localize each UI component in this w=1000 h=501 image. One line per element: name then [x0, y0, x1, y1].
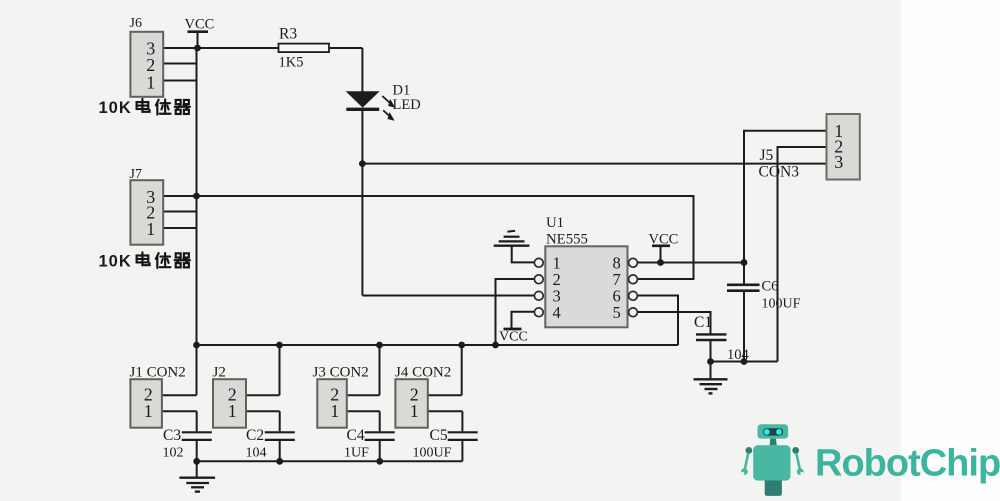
svg-text:C6: C6 [762, 279, 779, 295]
svg-text:1K5: 1K5 [279, 55, 304, 71]
svg-text:1: 1 [146, 72, 155, 92]
svg-text:C3: C3 [163, 427, 181, 444]
svg-text:J1 CON2: J1 CON2 [130, 365, 186, 381]
svg-text:VCC: VCC [185, 17, 215, 33]
svg-text:J3 CON2: J3 CON2 [313, 365, 369, 381]
svg-text:102: 102 [163, 446, 184, 461]
svg-text:C5: C5 [430, 427, 448, 444]
svg-text:104: 104 [727, 347, 750, 363]
svg-text:J6: J6 [130, 16, 142, 31]
svg-text:10K: 10K [99, 253, 132, 271]
svg-text:1UF: 1UF [344, 446, 369, 461]
svg-text:VCC: VCC [649, 232, 679, 248]
svg-text:NE555: NE555 [546, 232, 588, 248]
svg-text:5: 5 [613, 303, 621, 322]
svg-text:CON3: CON3 [759, 164, 800, 181]
svg-text:100UF: 100UF [762, 297, 801, 312]
svg-text:C1: C1 [694, 314, 712, 331]
svg-text:C4: C4 [347, 427, 365, 444]
svg-text:100UF: 100UF [413, 446, 452, 461]
svg-text:1: 1 [410, 401, 419, 421]
svg-text:4: 4 [553, 303, 561, 322]
svg-text:R3: R3 [279, 26, 297, 43]
svg-text:3: 3 [834, 152, 843, 172]
svg-text:1: 1 [144, 401, 153, 421]
svg-text:10K: 10K [99, 99, 132, 117]
svg-text:1: 1 [330, 401, 339, 421]
svg-text:J5: J5 [760, 147, 774, 164]
svg-text:C2: C2 [246, 427, 264, 444]
svg-text:104: 104 [246, 446, 267, 461]
svg-text:J2: J2 [213, 365, 226, 381]
svg-text:U1: U1 [546, 215, 564, 231]
svg-text:1: 1 [146, 219, 155, 239]
svg-text:J7: J7 [130, 167, 142, 182]
svg-text:1: 1 [228, 401, 237, 421]
svg-text:LED: LED [393, 97, 421, 113]
svg-text:VCC: VCC [499, 329, 528, 344]
svg-text:J4 CON2: J4 CON2 [395, 365, 451, 381]
svg-text:RobotChip: RobotChip [815, 443, 1000, 485]
